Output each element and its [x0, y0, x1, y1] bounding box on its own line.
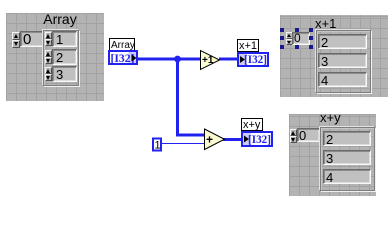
label box x+1 (block diagram)	[238, 40, 259, 52]
label x+y (front panel)	[320, 111, 341, 124]
index up/down (top-right)	[286, 32, 293, 39]
svg-text:+1: +1	[202, 55, 214, 66]
index display 0 (top-right)	[292, 32, 310, 45]
front panel: x+1 indicator panel (top-right)	[280, 15, 388, 97]
element 3 up/down	[45, 67, 52, 74]
element 3 display	[52, 66, 77, 82]
element 2 display	[52, 49, 77, 65]
index control up/down buttons (left panel)	[12, 32, 20, 40]
node: increment +1	[201, 51, 220, 70]
terminal: Array control [I32]	[108, 50, 138, 65]
wire: from add node to x+y terminal	[223, 138, 242, 141]
svg-text:[I32]: [I32]	[248, 132, 271, 146]
svg-text:+: +	[206, 133, 213, 147]
wire: lower horizontal into add node	[176, 134, 205, 137]
svg-text:x+y: x+y	[243, 119, 261, 131]
svg-text:x+1: x+1	[239, 40, 257, 52]
svg-text:Array: Array	[111, 40, 135, 51]
node: wire junction dot	[174, 56, 181, 63]
index up/down (bottom-right)	[290, 129, 297, 136]
element 2 display (top-right)	[318, 34, 367, 49]
element 2 display (bottom-right)	[323, 131, 371, 146]
svg-text:1: 1	[155, 140, 161, 152]
svg-text:[I32]: [I32]	[111, 51, 135, 65]
element 1 display	[52, 31, 77, 47]
array frame (top-right)	[316, 30, 371, 93]
wire: main array wire from Array terminal to +1 node	[137, 58, 201, 61]
element 3 display (bottom-right)	[323, 150, 371, 165]
front panel: x+y indicator panel (bottom-right)	[289, 114, 376, 196]
element 2 up/down	[45, 50, 52, 57]
front panel: Array control panel (top-left)	[6, 13, 104, 101]
element 4 display (top-right)	[318, 72, 367, 87]
index display 0 (left panel)	[20, 31, 44, 47]
svg-text:[I32]: [I32]	[244, 52, 267, 66]
index display 0 (bottom-right)	[297, 128, 320, 142]
element 1 up/down	[45, 32, 52, 39]
terminal: x+y indicator [I32]	[241, 131, 273, 147]
wire: thin scalar wire from constant 1	[160, 143, 205, 144]
element 4 display (bottom-right)	[323, 169, 371, 184]
label box x+y (block diagram)	[242, 119, 263, 131]
wire: vertical branch down	[176, 58, 179, 137]
element 3 display (top-right)	[318, 53, 367, 68]
label box Array (block diagram)	[110, 39, 135, 51]
wire: from +1 node to x+1 terminal	[219, 58, 239, 61]
array elements frame (left panel)	[43, 30, 79, 86]
constant 1	[152, 138, 162, 152]
label Array (front panel)	[10, 12, 110, 26]
array frame (bottom-right)	[320, 127, 375, 191]
node: add +	[205, 129, 225, 150]
label x+1 (front panel)	[315, 17, 336, 30]
selection handles around index control	[280, 28, 284, 32]
terminal: x+1 indicator [I32]	[237, 52, 269, 67]
